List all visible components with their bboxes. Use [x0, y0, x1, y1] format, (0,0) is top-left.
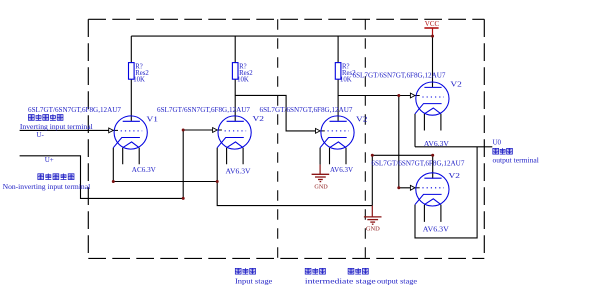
node V5 grid corner junction	[397, 186, 400, 189]
svg-text:GND: GND	[366, 226, 380, 233]
svg-text:10K: 10K	[340, 77, 352, 84]
wire R2 to V2 plate	[234, 79, 236, 121]
label hanzi 输出端 (output terminal)	[493, 148, 512, 154]
dashed stage divider 2	[364, 19, 366, 258]
svg-text:V2: V2	[356, 114, 368, 123]
label hanzi 中间级 (intermediate stage)	[305, 268, 325, 274]
svg-text:V2: V2	[449, 171, 461, 180]
node V1 cathode junction	[112, 180, 115, 183]
wire V2 heater legs	[227, 148, 244, 165]
svg-text:AC6.3V: AC6.3V	[132, 166, 156, 174]
svg-text:output terminal: output terminal	[493, 156, 539, 164]
wire V5 heater legs	[424, 205, 441, 222]
svg-text:10K: 10K	[133, 77, 145, 84]
wire VCC to V4 plate	[432, 36, 434, 87]
svg-text:V2: V2	[450, 79, 462, 88]
node V5 plate corner junction	[431, 154, 434, 157]
svg-text:intermediate stage: intermediate stage	[305, 278, 376, 286]
svg-text:AV6.3V: AV6.3V	[330, 166, 353, 174]
resistor R3	[335, 63, 341, 80]
node V2 grid junction	[182, 129, 185, 132]
dashed outer box	[88, 19, 484, 258]
input arrow V3 grid	[316, 129, 321, 134]
wire R3 to V3 plate	[337, 79, 339, 121]
node V4 grid branch junction	[397, 94, 400, 97]
svg-text:Inverting input terminal: Inverting input terminal	[20, 123, 93, 131]
wire V2 plate to V3 grid	[235, 95, 315, 130]
tube V4 (output top)	[415, 82, 449, 115]
svg-text:6SL7GT/6SN7GT,6F8G,12AU7: 6SL7GT/6SN7GT,6F8G,12AU7	[371, 159, 464, 168]
svg-text:6SL7GT/6SN7GT,6F8G,12AU7: 6SL7GT/6SN7GT,6F8G,12AU7	[157, 105, 250, 114]
label hanzi 反相输入端 (inverting input)	[28, 114, 63, 120]
tube V1	[113, 116, 147, 149]
svg-text:AV6.3V: AV6.3V	[424, 140, 449, 148]
tube V3 (intermediate)	[320, 116, 354, 149]
svg-text:Input stage: Input stage	[235, 278, 272, 286]
svg-text:6SL7GT/6SN7GT,6F8G,12AU7: 6SL7GT/6SN7GT,6F8G,12AU7	[28, 105, 121, 114]
input arrow V2 grid	[213, 128, 218, 133]
wire V1 heater legs	[123, 148, 140, 165]
svg-text:10K: 10K	[237, 77, 249, 84]
tube V5 (output bottom)	[415, 173, 449, 206]
wire rail to R1	[130, 36, 132, 63]
wire branch to V5 grid	[399, 96, 411, 188]
svg-text:U0: U0	[493, 139, 502, 147]
wire V4 heater legs	[424, 114, 441, 131]
svg-text:output stage: output stage	[377, 278, 417, 286]
wire cathode bus to ground	[217, 182, 372, 206]
wire V4 cathode leg	[414, 114, 416, 147]
label hanzi 输入级 (input stage)	[235, 268, 255, 274]
svg-text:GND: GND	[314, 184, 327, 191]
node V2 cathode junction	[216, 180, 219, 183]
svg-text:V2: V2	[253, 114, 265, 123]
ground GND2 bars	[364, 217, 382, 224]
input arrow V1 grid	[109, 128, 114, 133]
node VCC junction	[431, 35, 434, 38]
wire V3 cathode leg	[319, 148, 321, 165]
ground GND1 stub (V3 cathode)	[319, 165, 321, 174]
input arrow V4 grid	[410, 93, 415, 98]
wire U+ riser to V2 grid	[183, 130, 212, 198]
wire rail to R3	[337, 36, 339, 63]
svg-text:VCC: VCC	[425, 20, 440, 28]
svg-text:Non-inverting input terminal: Non-inverting input terminal	[3, 183, 91, 191]
resistor R1	[129, 63, 135, 80]
grid stubs (black)	[113, 96, 419, 188]
input arrow V5 grid	[410, 185, 415, 190]
label hanzi 同相输入端 (non-inverting input)	[38, 174, 74, 180]
svg-text:AV6.3V: AV6.3V	[423, 225, 449, 233]
tube V2 (second stage left)	[217, 116, 251, 149]
wire U+ input lead	[20, 156, 184, 199]
label hanzi 输出级 (output stage)	[348, 268, 368, 274]
wire V3 heater legs	[330, 148, 347, 165]
wire V5 cathode loop to output	[415, 147, 477, 238]
wire output node	[415, 146, 492, 148]
wire V3 plate to V4 grid	[338, 95, 410, 97]
node V5 plate-gnd junction	[371, 154, 374, 157]
ground GND2 stub (bottom right)	[371, 206, 373, 217]
wire V1 cathode leg	[112, 148, 114, 182]
wire V5 plate feed	[372, 155, 432, 178]
svg-text:AV6.3V: AV6.3V	[226, 168, 251, 176]
svg-text:6SL7GT/6SN7GT,6F8G,12AU7: 6SL7GT/6SN7GT,6F8G,12AU7	[353, 71, 446, 80]
svg-text:U+: U+	[45, 156, 54, 164]
wire cathode bus V1-V2	[113, 181, 217, 183]
svg-text:U-: U-	[36, 131, 44, 139]
svg-text:6SL7GT/6SN7GT,6F8G,12AU7: 6SL7GT/6SN7GT,6F8G,12AU7	[260, 105, 353, 114]
resistor R2	[232, 63, 238, 80]
wire B+ rail	[131, 35, 432, 37]
VCC power symbol	[424, 28, 438, 36]
wire R1 to V1 plate	[130, 79, 132, 121]
node U+ corner junction	[182, 197, 185, 200]
ground GND1 bars	[312, 174, 330, 181]
dashed stage divider 1	[277, 19, 279, 258]
wire V5 plate junction to ground	[371, 155, 373, 205]
wire rail to R2	[234, 36, 236, 63]
wire U- input lead	[20, 129, 109, 131]
wire V2 cathode leg	[216, 148, 218, 182]
svg-text:V1: V1	[147, 114, 159, 123]
